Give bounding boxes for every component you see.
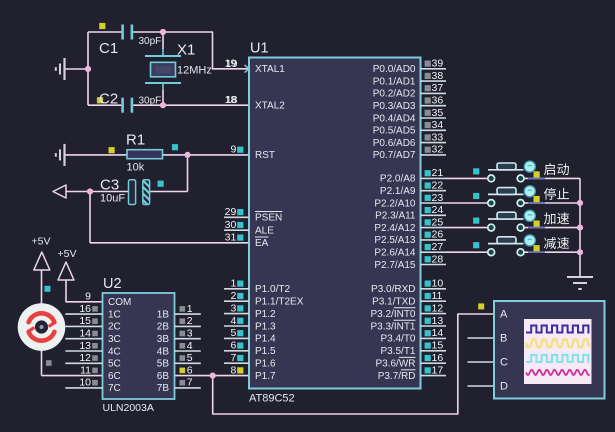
svg-text:P1.2: P1.2 bbox=[255, 309, 276, 320]
svg-text:P3.3/INT1: P3.3/INT1 bbox=[370, 321, 415, 332]
svg-text:3B: 3B bbox=[157, 334, 170, 345]
svg-text:5C: 5C bbox=[108, 359, 121, 370]
svg-text:22: 22 bbox=[432, 180, 444, 192]
svg-text:10k: 10k bbox=[127, 162, 145, 174]
svg-text:P1.3: P1.3 bbox=[255, 321, 276, 332]
svg-text:U1: U1 bbox=[250, 41, 269, 57]
svg-text:P3.5/T1: P3.5/T1 bbox=[380, 346, 415, 357]
svg-text:16: 16 bbox=[432, 352, 444, 364]
svg-text:37: 37 bbox=[432, 82, 444, 94]
svg-text:P2.0/A8: P2.0/A8 bbox=[380, 174, 416, 185]
svg-text:R1: R1 bbox=[126, 132, 145, 149]
svg-text:P0.1/AD1: P0.1/AD1 bbox=[373, 76, 416, 87]
svg-text:16: 16 bbox=[79, 303, 91, 315]
svg-text:15: 15 bbox=[432, 340, 444, 352]
svg-text:29: 29 bbox=[225, 206, 237, 218]
svg-text:RST: RST bbox=[255, 150, 275, 161]
svg-text:P1.0/T2: P1.0/T2 bbox=[255, 284, 290, 295]
svg-text:4C: 4C bbox=[108, 346, 121, 357]
svg-text:6: 6 bbox=[187, 364, 193, 376]
svg-text:PSEN: PSEN bbox=[255, 213, 282, 224]
svg-text:+5V: +5V bbox=[32, 236, 51, 248]
svg-text:9: 9 bbox=[230, 144, 236, 156]
svg-text:P3.0/RXD: P3.0/RXD bbox=[371, 284, 415, 295]
svg-text:27: 27 bbox=[432, 241, 444, 253]
svg-text:13: 13 bbox=[432, 315, 444, 327]
svg-text:30pF: 30pF bbox=[139, 96, 162, 107]
svg-text:15: 15 bbox=[79, 315, 91, 327]
svg-text:5: 5 bbox=[187, 352, 193, 364]
svg-text:8: 8 bbox=[230, 364, 236, 376]
svg-text:25: 25 bbox=[432, 216, 444, 228]
svg-text:P2.5/A13: P2.5/A13 bbox=[374, 235, 416, 246]
svg-text:P1.5: P1.5 bbox=[255, 346, 276, 357]
svg-text:7C: 7C bbox=[108, 383, 121, 394]
svg-text:7: 7 bbox=[230, 352, 236, 364]
svg-text:AT89C52: AT89C52 bbox=[249, 393, 295, 405]
svg-text:P1.7: P1.7 bbox=[255, 371, 276, 382]
svg-text:35: 35 bbox=[432, 107, 444, 119]
svg-text:6B: 6B bbox=[157, 371, 170, 382]
svg-text:6: 6 bbox=[230, 340, 236, 352]
svg-text:P3.6/WR: P3.6/WR bbox=[375, 359, 415, 370]
svg-text:P0.4/AD4: P0.4/AD4 bbox=[373, 113, 416, 124]
svg-text:P1.6: P1.6 bbox=[255, 359, 276, 370]
svg-text:+5V: +5V bbox=[58, 248, 77, 260]
svg-text:31: 31 bbox=[225, 232, 237, 244]
svg-text:ULN2003A: ULN2003A bbox=[103, 402, 154, 414]
svg-text:23: 23 bbox=[432, 192, 444, 204]
svg-text:1: 1 bbox=[230, 278, 236, 290]
svg-text:C2: C2 bbox=[99, 91, 118, 108]
svg-text:18: 18 bbox=[226, 94, 238, 106]
svg-text:24: 24 bbox=[432, 204, 444, 216]
svg-text:XTAL2: XTAL2 bbox=[255, 101, 285, 112]
svg-text:39: 39 bbox=[432, 58, 444, 70]
svg-text:9: 9 bbox=[85, 291, 91, 303]
svg-text:2: 2 bbox=[187, 315, 193, 327]
svg-text:2B: 2B bbox=[157, 322, 170, 333]
svg-text:19: 19 bbox=[226, 58, 238, 70]
svg-text:34: 34 bbox=[432, 119, 444, 131]
svg-text:14: 14 bbox=[432, 327, 444, 339]
svg-text:7B: 7B bbox=[157, 383, 170, 394]
svg-text:XTAL1: XTAL1 bbox=[255, 64, 285, 75]
svg-text:11: 11 bbox=[432, 290, 443, 302]
svg-text:COM: COM bbox=[108, 297, 131, 308]
svg-text:P2.3/A11: P2.3/A11 bbox=[375, 211, 416, 222]
svg-text:P2.4/A12: P2.4/A12 bbox=[374, 223, 416, 234]
svg-text:P2.2/A10: P2.2/A10 bbox=[374, 198, 416, 209]
svg-text:P0.6/AD6: P0.6/AD6 bbox=[373, 138, 416, 149]
svg-text:5B: 5B bbox=[157, 359, 170, 370]
svg-text:32: 32 bbox=[432, 144, 444, 156]
svg-text:36: 36 bbox=[432, 95, 444, 107]
svg-text:P0.3/AD3: P0.3/AD3 bbox=[373, 101, 416, 112]
svg-text:4B: 4B bbox=[157, 346, 170, 357]
svg-text:P2.1/A9: P2.1/A9 bbox=[380, 186, 416, 197]
svg-text:38: 38 bbox=[432, 70, 444, 82]
svg-text:3: 3 bbox=[230, 302, 236, 314]
svg-text:12: 12 bbox=[432, 302, 444, 314]
svg-text:17: 17 bbox=[432, 364, 444, 376]
svg-text:4: 4 bbox=[187, 340, 193, 352]
svg-text:11: 11 bbox=[80, 364, 91, 376]
svg-text:P0.2/AD2: P0.2/AD2 bbox=[373, 89, 416, 100]
svg-text:12: 12 bbox=[79, 352, 91, 364]
svg-text:A: A bbox=[500, 309, 508, 321]
svg-text:10uF: 10uF bbox=[100, 193, 125, 205]
svg-text:4: 4 bbox=[230, 315, 236, 327]
svg-text:P0.0/AD0: P0.0/AD0 bbox=[373, 64, 416, 75]
svg-text:26: 26 bbox=[432, 229, 444, 241]
svg-text:P3.4/T0: P3.4/T0 bbox=[380, 334, 415, 345]
svg-text:P0.5/AD5: P0.5/AD5 bbox=[373, 126, 416, 137]
svg-text:7: 7 bbox=[187, 377, 193, 389]
svg-text:P3.1/TXD: P3.1/TXD bbox=[372, 297, 415, 308]
svg-text:2C: 2C bbox=[108, 322, 121, 333]
svg-text:13: 13 bbox=[79, 340, 91, 352]
svg-text:3: 3 bbox=[187, 328, 193, 340]
svg-text:P1.4: P1.4 bbox=[255, 334, 276, 345]
svg-text:B: B bbox=[500, 333, 507, 345]
svg-text:ALE: ALE bbox=[255, 226, 274, 237]
svg-text:12MHz: 12MHz bbox=[177, 65, 212, 77]
svg-text:1C: 1C bbox=[108, 309, 121, 320]
svg-text:U2: U2 bbox=[103, 276, 122, 292]
svg-text:P0.7/AD7: P0.7/AD7 bbox=[373, 150, 416, 161]
svg-text:14: 14 bbox=[79, 328, 91, 340]
svg-text:D: D bbox=[500, 381, 508, 393]
svg-text:33: 33 bbox=[432, 131, 444, 143]
svg-text:30: 30 bbox=[225, 219, 237, 231]
svg-text:C3: C3 bbox=[100, 177, 119, 194]
svg-text:30pF: 30pF bbox=[139, 36, 162, 47]
svg-text:X1: X1 bbox=[177, 42, 195, 59]
svg-text:P2.7/A15: P2.7/A15 bbox=[374, 260, 416, 271]
svg-text:6C: 6C bbox=[108, 371, 121, 382]
svg-text:1B: 1B bbox=[157, 309, 170, 320]
svg-text:P3.2/INT0: P3.2/INT0 bbox=[370, 309, 415, 320]
svg-text:28: 28 bbox=[432, 253, 444, 265]
svg-text:P1.1/T2EX: P1.1/T2EX bbox=[255, 297, 304, 308]
svg-text:2: 2 bbox=[230, 290, 236, 302]
svg-text:C: C bbox=[500, 357, 508, 369]
svg-text:EA: EA bbox=[255, 238, 269, 249]
svg-text:C1: C1 bbox=[99, 40, 118, 57]
svg-text:3C: 3C bbox=[108, 334, 121, 345]
svg-text:5: 5 bbox=[230, 327, 236, 339]
svg-text:21: 21 bbox=[432, 167, 444, 179]
svg-text:P2.6/A14: P2.6/A14 bbox=[374, 248, 416, 259]
svg-text:1: 1 bbox=[187, 303, 193, 315]
svg-text:10: 10 bbox=[79, 377, 91, 389]
svg-text:P3.7/RD: P3.7/RD bbox=[378, 371, 416, 382]
svg-text:10: 10 bbox=[432, 278, 444, 290]
